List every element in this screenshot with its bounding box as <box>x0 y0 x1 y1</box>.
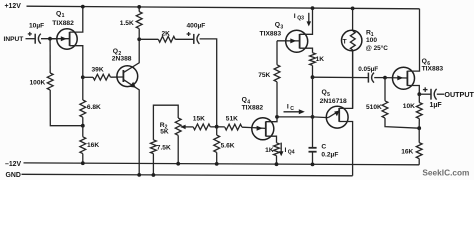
junction pot at -12V rail <box>176 162 180 166</box>
svg-text:SeekIC.com: SeekIC.com <box>422 167 469 177</box>
transistor Q2 collector lead <box>123 39 139 72</box>
transistor Q6 base-one lead down <box>407 86 419 95</box>
junction 7.5K at GND rail <box>152 173 156 177</box>
wire 39K to Q2 base <box>111 76 124 78</box>
wire 1.5K to +12V rail <box>138 7 140 12</box>
svg-text:10K: 10K <box>403 103 415 110</box>
junction 1K lower at -12V rail <box>275 162 279 166</box>
junction C 0.2uF at -12V rail <box>311 163 315 167</box>
svg-text:1K: 1K <box>316 56 325 63</box>
capacitor C-out 1uF <box>430 89 432 100</box>
wire C 0.2uF to -12V rail <box>312 152 314 165</box>
wire 0.05uF to node J <box>374 77 385 79</box>
thermistor R1 circle <box>342 30 362 50</box>
wire 75K to node F <box>276 82 278 117</box>
svg-text:16K: 16K <box>87 142 99 149</box>
resistor 75K <box>274 65 280 82</box>
transistor Q4 emitter arrow <box>252 127 265 130</box>
node F junction (Q4 B2 / 75K / wire to Q5) <box>275 115 279 119</box>
svg-text:0.2µF: 0.2µF <box>321 152 338 159</box>
wire INPUT to C-in <box>26 38 36 40</box>
wire 6.8K to node C <box>82 117 84 126</box>
potentiometer R2 element <box>175 118 181 135</box>
transistor Q1 base-two lead to +12V rail <box>70 7 83 32</box>
svg-text:10µF: 10µF <box>29 22 44 29</box>
resistor 39K <box>93 74 111 80</box>
wire node B down to 6.8K <box>82 77 84 100</box>
transistor Q2 base bar <box>122 70 124 82</box>
wire 2K to C 400uF <box>175 38 194 40</box>
svg-text:2N388: 2N388 <box>112 56 132 63</box>
svg-text:2N16718: 2N16718 <box>320 98 347 105</box>
transistor Q4 base-two lead up to node F <box>266 117 277 122</box>
svg-text:T: T <box>343 39 347 46</box>
svg-text:–12V: –12V <box>5 161 21 168</box>
svg-text:5.6K: 5.6K <box>221 143 235 150</box>
svg-text:TIX882: TIX882 <box>52 20 74 27</box>
svg-text:TIX882: TIX882 <box>242 105 264 112</box>
transistor Q4 base bar <box>265 121 267 136</box>
resistor 2K <box>158 36 175 42</box>
resistor 16K right <box>416 143 422 159</box>
resistor 1.5K <box>136 12 142 29</box>
transistor Q6 circle <box>393 67 415 89</box>
transistor Q3 circle <box>286 30 308 52</box>
svg-text:1K: 1K <box>265 147 274 154</box>
svg-text:75K: 75K <box>258 72 270 79</box>
svg-text:I: I <box>294 13 296 20</box>
transistor Q5 base-one lead to GND rail <box>339 122 352 176</box>
svg-text:@ 25°C: @ 25°C <box>366 44 389 52</box>
resistor 510K <box>382 101 388 118</box>
svg-text:I: I <box>285 147 287 154</box>
svg-text:Q: Q <box>275 22 280 29</box>
transistor Q3 base-one lead down <box>300 48 313 53</box>
wire C 400uF to node E <box>200 39 217 127</box>
svg-text:7.5K: 7.5K <box>157 145 171 152</box>
svg-text:Q3: Q3 <box>297 16 304 22</box>
resistor 5.6K <box>214 135 220 152</box>
resistor 51K <box>225 124 242 130</box>
svg-text:400µF: 400µF <box>187 23 206 30</box>
transistor Q5 base bar <box>338 108 340 122</box>
transistor Q6 emitter arrow <box>385 77 407 79</box>
+12V supply rail wire <box>27 6 420 9</box>
current annotation I-C arrow <box>284 111 301 113</box>
transistor Q1 base-one lead down <box>70 46 83 78</box>
resistor 10K <box>416 103 422 119</box>
wire pot bottom to -12V rail <box>177 135 179 163</box>
current annotation I-Q3 arrow <box>308 13 310 24</box>
wire output cap to OUTPUT <box>437 93 444 95</box>
svg-text:Q4: Q4 <box>288 150 295 156</box>
capacitor C-in 10uF plus sign <box>28 33 32 35</box>
wire node G down to node H <box>312 77 314 117</box>
junction 16K at -12V rail <box>81 161 85 165</box>
svg-text:510K: 510K <box>366 104 382 111</box>
wire node D to 2K <box>139 38 158 40</box>
node J junction (0.05uF/510K/Q6) <box>383 76 387 80</box>
node C junction (6.8K/16K/100K) <box>81 124 85 128</box>
current annotation I-Q4 arrow <box>280 143 282 154</box>
node G junction (1K/0.05uF wire/Q5 branch) <box>311 75 315 79</box>
transistor Q6 base-two lead to +12V rail corner <box>407 9 419 71</box>
wire node C to 16K <box>82 126 84 137</box>
transistor Q1 emitter arrow <box>50 38 69 40</box>
transistor Q1 base bar <box>69 32 71 46</box>
transistor Q2 emitter lead with arrow <box>123 80 139 175</box>
wire +12V rail to thermistor <box>352 8 354 31</box>
svg-text:39K: 39K <box>92 67 104 74</box>
svg-text:1.5K: 1.5K <box>120 20 134 27</box>
junction 5.6K at -12V rail <box>215 162 219 166</box>
capacitor 400uF plus sign <box>187 33 191 35</box>
transistor Q5 emitter arrow diagonal <box>328 111 339 118</box>
svg-text:100K: 100K <box>30 80 46 87</box>
wire Q3 emitter down to 75K <box>276 41 278 65</box>
svg-text:5K: 5K <box>160 129 169 136</box>
svg-text:16K: 16K <box>401 149 413 156</box>
junction 1.5K at +12V rail <box>137 5 141 9</box>
resistor 100K <box>47 73 53 90</box>
wire C-in to node A <box>41 38 57 40</box>
wire pot top bracket <box>153 105 178 140</box>
svg-text:TIX883: TIX883 <box>260 30 282 37</box>
svg-text:Q: Q <box>56 10 61 17</box>
wire node D up to 1.5K <box>138 29 140 40</box>
wire 1K lower to -12V rail <box>276 156 278 165</box>
wire thermistor down to Q5 base-two (crossing) <box>352 50 354 108</box>
resistor 1K lower (Q4) <box>274 143 280 156</box>
junction Q1 base-two at +12V rail <box>81 5 85 9</box>
wire node L to output cap <box>419 93 431 95</box>
wire 10K to node K <box>418 119 420 129</box>
potentiometer R2 wiper arrow <box>181 126 193 128</box>
resistor 15K <box>193 124 210 130</box>
svg-text:Q: Q <box>242 97 247 104</box>
transistor Q4 circle <box>252 118 274 140</box>
svg-text:2K: 2K <box>162 30 171 37</box>
wire 1K upper to node G <box>312 65 314 77</box>
node D junction (Q2 collector/1.5K/2K) <box>137 37 141 41</box>
wire node E to 51K <box>217 126 225 128</box>
transistor Q5 base-two lead up <box>339 51 352 109</box>
svg-text:C: C <box>321 144 326 151</box>
GND rail wire <box>22 174 353 176</box>
svg-text:51K: 51K <box>226 116 238 123</box>
svg-text:6.8K: 6.8K <box>87 104 101 111</box>
wire node J down to 510K <box>384 78 386 101</box>
svg-text:Q: Q <box>322 89 327 96</box>
node B junction (Q1 base-one / 39K) <box>81 75 85 79</box>
svg-text:I: I <box>287 104 289 111</box>
wire 5.6K to -12V rail <box>216 152 218 164</box>
node A junction (input node) <box>48 37 52 41</box>
wire 510K to node K <box>385 118 419 128</box>
svg-text:0.05µF: 0.05µF <box>358 66 378 73</box>
wire 7.5K to GND rail <box>152 154 154 175</box>
svg-text:OUTPUT: OUTPUT <box>444 90 474 99</box>
transistor Q3 emitter arrow <box>277 40 299 42</box>
svg-text:15K: 15K <box>193 116 205 123</box>
node K junction (10K/510K/16K) <box>417 126 421 130</box>
svg-text:TIX883: TIX883 <box>422 66 444 73</box>
junction thermistor at +12V rail <box>351 6 355 10</box>
svg-text:100: 100 <box>366 37 377 44</box>
svg-text:Q: Q <box>113 48 118 55</box>
resistor 16K left <box>80 137 86 154</box>
junction Q2 emitter at GND rail <box>137 173 141 177</box>
wire 51K to Q4 emitter <box>242 126 252 128</box>
transistor Q6 base bar <box>406 71 408 86</box>
resistor 7.5K <box>151 140 157 154</box>
transistor Q3 base-two lead to +12V rail <box>300 8 313 34</box>
transistor Q4 base-one lead down <box>266 136 277 143</box>
capacitor C 0.2uF <box>309 147 317 149</box>
node L junction (Q6 B1/output cap/10K) <box>417 92 421 96</box>
resistor 1K upper (Q3) <box>310 53 316 66</box>
wire node B to 39K <box>83 76 93 78</box>
svg-text:+12V: +12V <box>5 3 22 10</box>
transistor Q5 circle <box>326 106 348 128</box>
svg-text:INPUT: INPUT <box>4 36 24 43</box>
wire 16K to -12V rail <box>82 154 84 164</box>
resistor 6.8K <box>80 100 86 117</box>
svg-text:1: 1 <box>62 13 65 19</box>
wire node L down to 10K <box>418 94 420 102</box>
transistor Q1 circle <box>57 29 77 49</box>
wire node K down to 16K <box>418 128 420 142</box>
thermistor R1 element <box>350 31 355 50</box>
capacitor C-in 10uF <box>34 34 36 44</box>
svg-text:5: 5 <box>327 92 330 98</box>
capacitor C 0.2uF top wire <box>312 117 314 148</box>
svg-text:GND: GND <box>6 172 21 179</box>
capacitor 400uF <box>193 34 195 44</box>
junction Q3 base-two at +12V rail <box>311 6 315 10</box>
wire node E down to 5.6K <box>216 127 218 135</box>
transistor Q2 circle <box>117 66 138 87</box>
wire 100K to 6.8K/16K node <box>50 90 83 126</box>
node H junction (Q5 emitter node) <box>311 115 315 119</box>
wire node A down to R 100K <box>49 39 51 73</box>
capacitor C-out 1uF plus sign <box>423 89 428 91</box>
svg-text:Q: Q <box>422 58 427 65</box>
wire 16K right to -12V rail end <box>418 159 420 165</box>
wire node G to 0.05uF (crosses thermistor line) <box>313 76 369 78</box>
transistor Q3 base bar <box>299 34 301 49</box>
svg-text:1µF: 1µF <box>430 102 443 109</box>
wire 15K to node E <box>210 126 216 128</box>
wire node H to Q5 emitter <box>313 116 329 119</box>
capacitor 0.05uF <box>367 73 369 83</box>
wire node F to node H <box>277 116 313 118</box>
node E junction (15K/51K/5.6K/400uF) <box>215 125 219 129</box>
-12V supply rail wire <box>24 163 420 165</box>
